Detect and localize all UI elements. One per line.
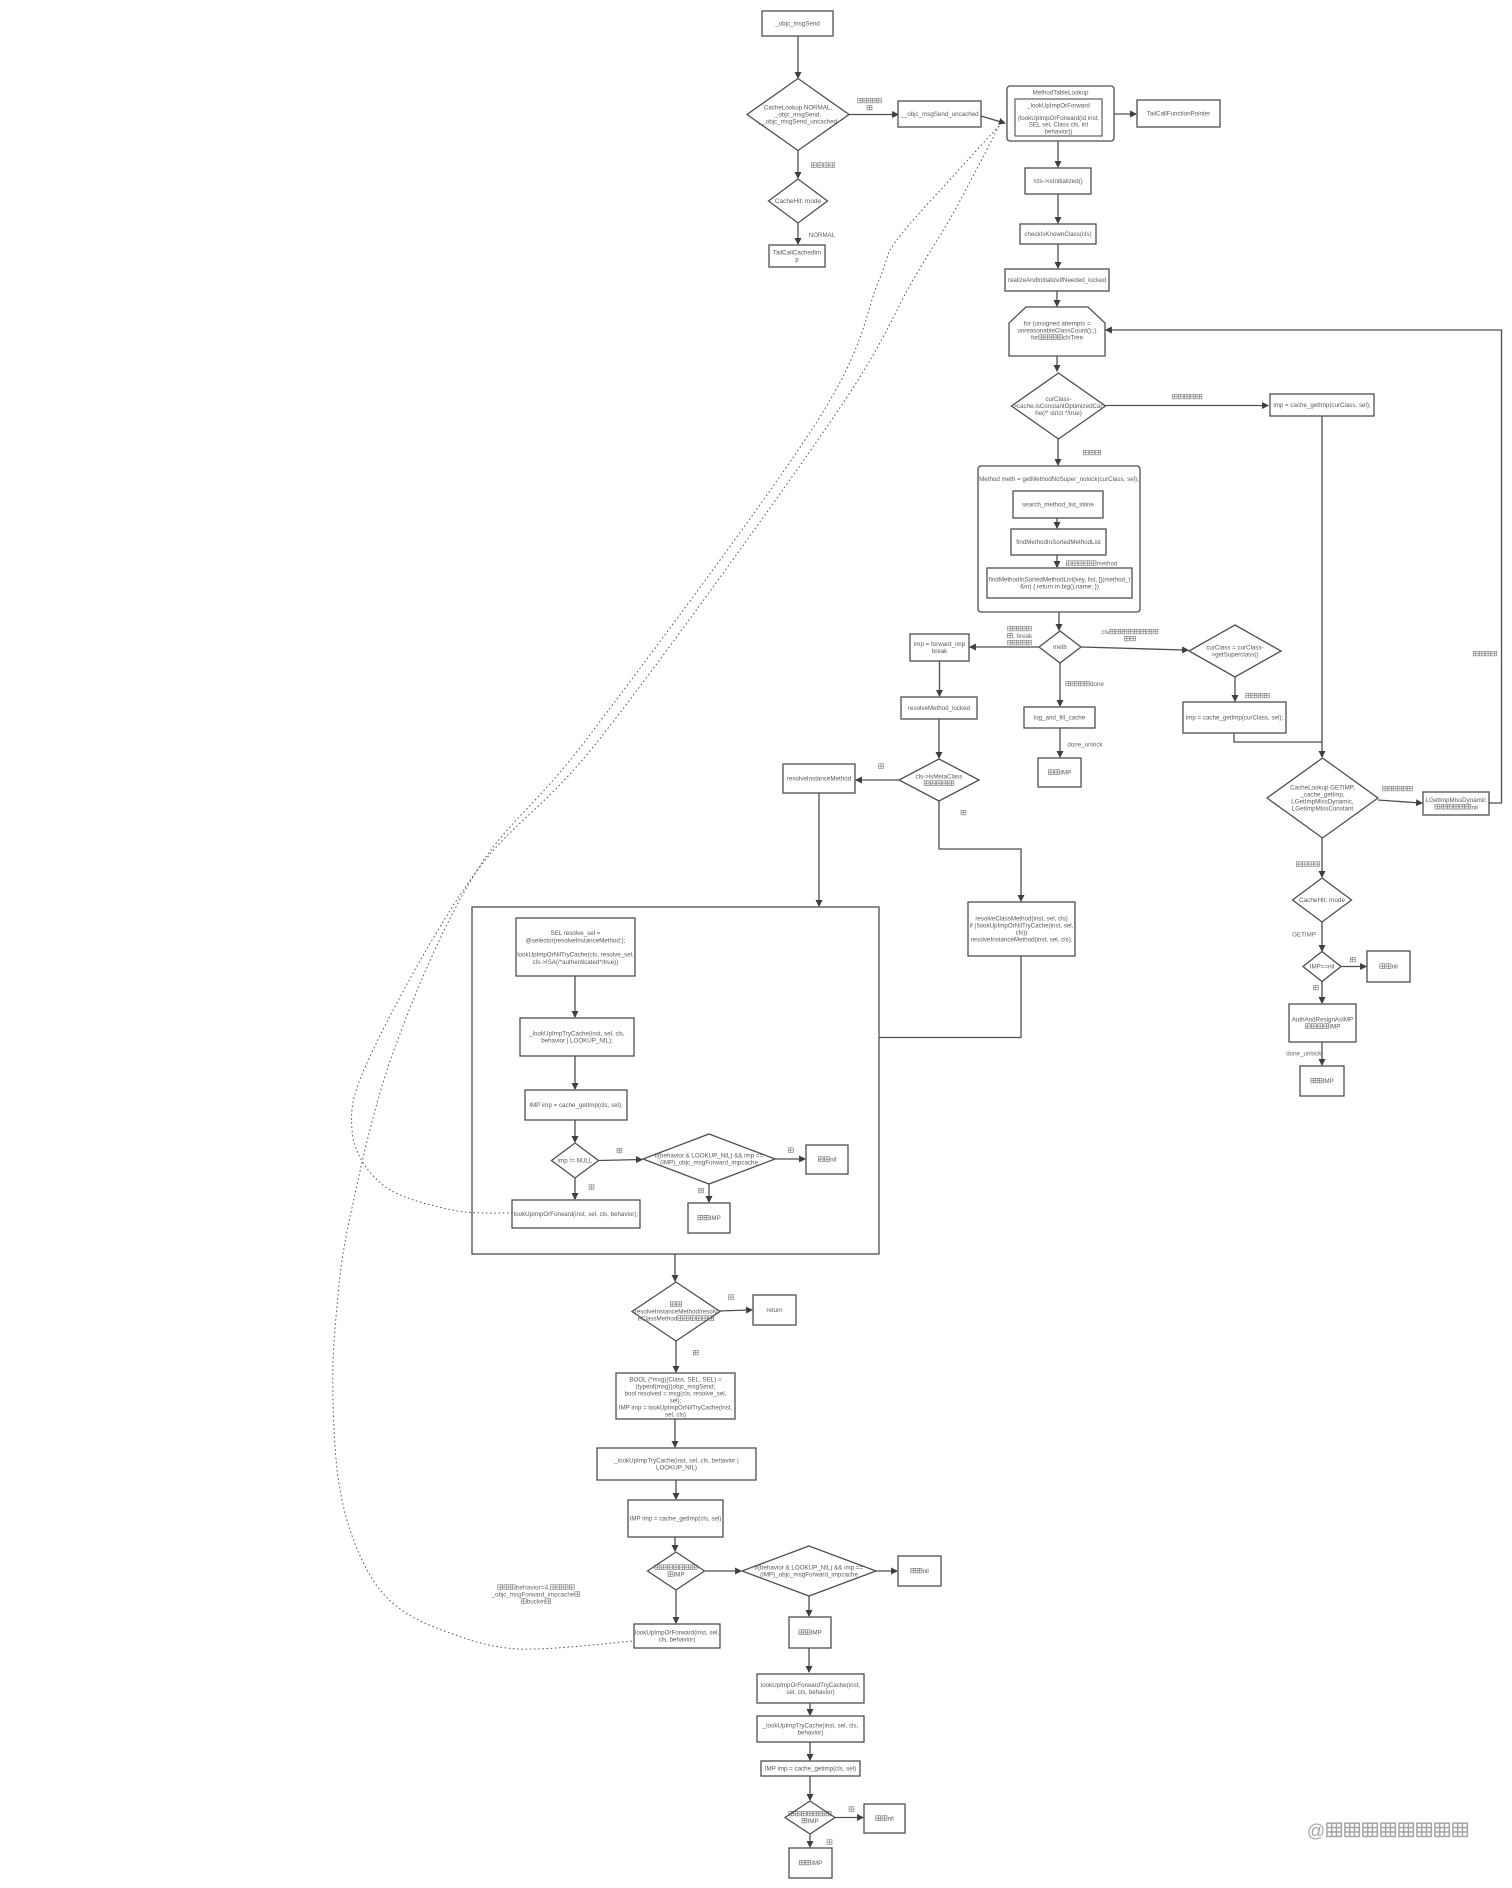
svg-text:&m) { return m.big().name; }): &m) { return m.big().name; })	[1020, 584, 1099, 591]
decision has IMP 1	[648, 1552, 705, 1590]
svg-text:CacheLookup GETIMP,: CacheLookup GETIMP,	[1290, 785, 1355, 792]
wire behavior1 to 返回nil	[775, 1158, 805, 1160]
decision cls->isMetaClass	[899, 759, 979, 801]
svg-text:behavior): behavior)	[798, 1730, 824, 1737]
svg-text:(IMP)_objc_msgForward_impcache: (IMP)_objc_msgForward_impcache	[760, 1572, 858, 1579]
wire IMP==nil down	[1321, 981, 1323, 1003]
label 无缓存	[1083, 450, 1100, 455]
svg-text:NORMAL: NORMAL	[809, 232, 836, 239]
svg-text:Method meth = getMethodNoSuper: Method meth = getMethodNoSuper_nolock(cu…	[979, 476, 1139, 483]
wire isConstantOptimizedCache to cache_getImp	[1106, 405, 1269, 407]
label done_unlock left	[1067, 742, 1103, 749]
svg-text:_objc_msgForward_impcache: _objc_msgForward_impcache	[491, 1592, 575, 1599]
svg-text:search_method_list_inline: search_method_list_inline	[1022, 502, 1094, 509]
svg-text:sel, cls): sel, cls)	[665, 1412, 686, 1419]
svg-text:clsTree: clsTree	[1063, 335, 1084, 342]
svg-text:IMP: IMP	[811, 1630, 822, 1637]
wire cache_getImp to imp!=NULL	[574, 1120, 576, 1142]
svg-text:bool resolved = msg(cls, resol: bool resolved = msg(cls, resolve_sel,	[625, 1391, 727, 1398]
svg-text:TailCallCachedIm: TailCallCachedIm	[773, 250, 821, 257]
svg-text:curClass = curClass-: curClass = curClass-	[1206, 645, 1263, 652]
decision imp != NULL	[552, 1143, 599, 1178]
svg-text:behavior)): behavior))	[1045, 128, 1073, 135]
label 否 imp!=NULL	[589, 1185, 594, 1190]
svg-text:eClassMethod: eClassMethod	[638, 1316, 678, 1323]
svg-text:CacheHit: mode: CacheHit: mode	[1299, 897, 1346, 904]
decision isConstantOptimizedCache	[1012, 373, 1106, 439]
label 否 hasIMP2	[849, 1807, 854, 1812]
svg-text:GETIMP: GETIMP	[1292, 932, 1316, 939]
svg-text:IMP: IMP	[808, 1818, 819, 1825]
box 返回IMP done	[1038, 758, 1081, 787]
label 是 implemented	[693, 1350, 698, 1355]
label 是 isMetaClass	[961, 810, 966, 815]
label Method meth = getMethodNoSuper_nolock	[979, 476, 1139, 483]
box return	[753, 1295, 796, 1325]
box AuthAndResignAsIMP	[1289, 1004, 1356, 1042]
decision curClass = getSuperclass	[1189, 625, 1281, 677]
svg-text:MethodTableLookup: MethodTableLookup	[1033, 90, 1089, 97]
svg-text:cls, behavior): cls, behavior)	[659, 1637, 696, 1644]
box TailCallFunctionPointer	[1137, 100, 1220, 127]
svg-text:nil: nil	[888, 1816, 894, 1823]
svg-text:for (unsigned attempts =: for (unsigned attempts =	[1023, 321, 1090, 328]
svg-text:, break: , break	[1013, 633, 1033, 640]
wire meth to log_and_fill_cache	[1059, 663, 1061, 706]
wire loop back 继续循环	[1106, 330, 1502, 803]
decision IMP==nil	[1303, 952, 1341, 982]
svg-text:log_and_fill_cache: log_and_fill_cache	[1034, 715, 1086, 722]
wire CacheHit to TailCallCachedImp	[797, 223, 799, 244]
svg-text:findMethodInSortedMethodList(k: findMethodInSortedMethodList(key, list, …	[989, 577, 1131, 584]
box resolveClassMethod	[968, 902, 1075, 956]
svg-text:realizeAndInitializeIfNeeded_l: realizeAndInitializeIfNeeded_locked	[1008, 277, 1107, 284]
svg-text:resolveInstanceMethod: resolveInstanceMethod	[787, 776, 852, 783]
wire _objc_msgSend to CacheLookup diamond	[797, 36, 799, 78]
svg-text:imp = cache_getImp(curClass, s: imp = cache_getImp(curClass, sel);	[1273, 402, 1371, 409]
svg-text:lookUpImpOrNilTryCache(cls, re: lookUpImpOrNilTryCache(cls, resolve_sel,	[517, 952, 634, 959]
svg-text:!cls->isInitialized(): !cls->isInitialized()	[1033, 178, 1082, 185]
decision resolve methods implemented	[632, 1282, 720, 1341]
wire search to findMethod	[1056, 518, 1058, 528]
svg-text:behavior=4,: behavior=4,	[516, 1585, 551, 1592]
svg-text:IMP imp = cache_getimp(cls, se: IMP imp = cache_getimp(cls, sel)	[765, 1766, 856, 1773]
label 是 imp!=NULL	[617, 1148, 622, 1153]
svg-text:AuthAndResignAsIMP: AuthAndResignAsIMP	[1292, 1017, 1353, 1024]
wire hasIMP2 to 返回nil	[835, 1817, 863, 1819]
svg-text:return: return	[766, 1307, 783, 1314]
wire resolveInstanceMethod down to container	[818, 793, 820, 906]
svg-text:_objc_msgSend,: _objc_msgSend,	[774, 112, 821, 119]
label 是 hasIMP2	[827, 1840, 832, 1845]
box _lookUpImpTryCache b2	[597, 1448, 756, 1480]
box LGetImpMissDynamic	[1423, 792, 1489, 815]
svg-text:nil: nil	[923, 1568, 929, 1575]
wire cache_getImp b2 down	[674, 1537, 676, 1551]
svg-text:findMethodInSortedMethodList: findMethodInSortedMethodList	[1016, 539, 1101, 546]
svg-text:IMP imp = cache_getImp(cls, se: IMP imp = cache_getImp(cls, sel)	[630, 1516, 722, 1523]
svg-text:SEL resolve_sel =: SEL resolve_sel =	[551, 930, 601, 937]
label 有缓存优化	[1172, 394, 1202, 399]
box resolveMethod_locked	[901, 697, 977, 719]
box for-loop unreasonableClassCount	[1009, 307, 1105, 356]
label BOOL msg text	[619, 1377, 733, 1419]
svg-text:_lookUpImpTryCache(inst, sel,: _lookUpImpTryCache(inst, sel, cls,	[528, 1031, 625, 1038]
svg-text:(IMP)_objc_msgForward_impcache: (IMP)_objc_msgForward_impcache	[660, 1160, 758, 1167]
wire for-loop down	[1056, 356, 1058, 371]
decision behavior LOOKUP_NIL 1	[643, 1134, 775, 1184]
svg-text:nil: nil	[830, 1157, 836, 1164]
svg-text:_lookUpImpOrForward: _lookUpImpOrForward	[1026, 103, 1090, 110]
wire imp!=NULL down	[574, 1178, 576, 1199]
svg-text:imp = forward_imp: imp = forward_imp	[914, 641, 966, 648]
label 命中缓存 GETIMP	[1296, 862, 1320, 867]
decision behavior LOOKUP_NIL 2	[742, 1546, 876, 1596]
wire CacheLookup to __objc_msgSend_uncached	[849, 114, 898, 116]
svg-text:he(/* strict */true): he(/* strict */true)	[1035, 410, 1082, 417]
svg-text:TailCallFunctionPointer: TailCallFunctionPointer	[1147, 111, 1210, 118]
box 返回nil c1	[806, 1145, 848, 1174]
svg-text:checkIsKnownClass(cls): checkIsKnownClass(cls)	[1024, 231, 1091, 238]
label _lookUpImpOrForward text	[1018, 103, 1100, 136]
decision has IMP 2	[785, 1801, 835, 1834]
label 否 IMP==nil	[1313, 985, 1318, 990]
wire resolve_sel down	[574, 976, 576, 1017]
svg-text:cls->isMetaClass: cls->isMetaClass	[915, 774, 962, 781]
label 不存在父类 break 跳出循环	[1008, 626, 1033, 645]
label 否 behavior1	[788, 1148, 793, 1153]
svg-text:LGetImpMissConstant: LGetImpMissConstant	[1292, 806, 1354, 813]
label 否 isMetaClass	[879, 764, 884, 769]
label watermark 稀土掘金	[1307, 1821, 1467, 1841]
svg-text:resolveInstanceMethod/resolv: resolveInstanceMethod/resolv	[635, 1309, 718, 1316]
svg-text:cls: cls	[1101, 629, 1109, 636]
svg-text:CacheLookup NORMAL,: CacheLookup NORMAL,	[764, 105, 832, 112]
wire getSuperclass down	[1234, 677, 1236, 701]
label 存在父类	[1246, 693, 1270, 698]
svg-text:_cache_getImp,: _cache_getImp,	[1299, 792, 1344, 799]
box IMP imp = cache_getImp b2	[628, 1500, 723, 1537]
svg-text:IMP==nil: IMP==nil	[1310, 964, 1334, 971]
svg-text:IMP: IMP	[710, 1215, 721, 1222]
svg-text:bucket: bucket	[527, 1599, 546, 1606]
box lookUpImpOrForwardTryCache	[757, 1674, 864, 1703]
box search_method_list_inline	[1013, 491, 1103, 518]
label 是 behavior1	[699, 1188, 704, 1193]
svg-text:if (!lookUpImpOrNilTryCache(in: if (!lookUpImpOrNilTryCache(inst, sel,	[970, 923, 1074, 930]
svg-text:meth: meth	[1053, 644, 1067, 651]
svg-text:_lookUpImpTryCache(inst, sel,: _lookUpImpTryCache(inst, sel, cls,	[762, 1723, 859, 1730]
wire container to meth diamond	[1058, 612, 1060, 630]
wire cache_getImp mid join	[1234, 733, 1322, 742]
svg-text:if(behavior & LOOKUP_NIL) && i: if(behavior & LOOKUP_NIL) && imp ==	[755, 1565, 864, 1572]
svg-text:_objc_msgSend: _objc_msgSend	[774, 21, 820, 28]
svg-text:@: @	[1307, 1821, 1325, 1841]
wire implemented to return	[720, 1310, 753, 1311]
svg-text:curClass-: curClass-	[1045, 396, 1071, 403]
wire GETIMP to LGetImpMissDynamic	[1378, 800, 1422, 803]
wire isMetaClass to resolveClassMethod	[939, 801, 1021, 901]
wire behavior2 to 返回nil	[876, 1570, 897, 1572]
svg-text:IMP: IMP	[1060, 770, 1071, 777]
svg-text:__objc_msgSend_uncached: __objc_msgSend_uncached	[758, 119, 838, 126]
box log_and_fill_cache	[1024, 707, 1095, 728]
wire isMetaClass to resolveInstanceMethod	[856, 779, 899, 781]
box _lookUpImpTryCache c1	[520, 1018, 634, 1056]
box 返回IMP c1	[688, 1203, 730, 1233]
svg-text:IMP imp = cache_getImp(cls, se: IMP imp = cache_getImp(cls, sel);	[529, 1102, 623, 1109]
wire resolveClassMethod to _lookUpImpTryCache	[635, 956, 1021, 1038]
box resolver container	[472, 907, 879, 1254]
svg-text:IMP: IMP	[1323, 1078, 1334, 1085]
svg-text:resolveMethod_locked: resolveMethod_locked	[908, 705, 971, 712]
box !cls->isInitialized()	[1025, 168, 1091, 194]
svg-text:>cache.isConstantOptimizedCac: >cache.isConstantOptimizedCac	[1013, 403, 1103, 410]
box 返回IMP right	[1300, 1066, 1344, 1096]
wire imp!=NULL to behavior diamond	[599, 1160, 642, 1161]
svg-text:lookUpImpOrForward(inst, sel,: lookUpImpOrForward(inst, sel,	[635, 1630, 719, 1637]
svg-text:lookUpImpOrForwardTryCache(ins: lookUpImpOrForwardTryCache(inst,	[761, 1682, 861, 1689]
svg-text:done_unlock: done_unlock	[1286, 1051, 1322, 1058]
svg-text:@selector(resolveInstanceMetho: @selector(resolveInstanceMethod:);	[526, 938, 626, 945]
box lookUpImpOrForward b2	[634, 1624, 720, 1648]
box TailCallCachedImp	[769, 245, 825, 267]
wire meth to forward_imp	[970, 646, 1039, 648]
box findMethodInSortedMethodList key list	[987, 568, 1132, 598]
svg-text:IMP: IMP	[1329, 1024, 1340, 1031]
wire _lookUpImpTryCache down	[574, 1056, 576, 1089]
label 二分法查找method	[1066, 561, 1118, 568]
box imp = cache_getImp(curClass, sel) mid-right	[1183, 702, 1286, 733]
box 返回IMP b3	[789, 1848, 832, 1878]
svg-text:(typeof(msg))objc_msgSend;: (typeof(msg))objc_msgSend;	[636, 1384, 716, 1391]
wire forward_imp to resolveMethod_locked	[939, 661, 941, 696]
box IMP imp = cache_getImp c1	[525, 1090, 627, 1120]
wire __objc_msgSend_uncached to MethodTableLookup	[981, 116, 1005, 123]
svg-text:break: break	[932, 648, 948, 655]
box resolveInstanceMethod	[783, 764, 855, 793]
label 找到执行done	[1066, 681, 1105, 688]
wire BOOL down	[674, 1419, 676, 1447]
wire IMP==nil to 返回nil	[1341, 966, 1366, 968]
svg-text:method: method	[1097, 561, 1118, 568]
wire cache_getImp down long	[1321, 416, 1323, 757]
wire resolveMethod_locked down	[938, 719, 940, 758]
wire behavior2 to 返回IMP	[808, 1596, 810, 1616]
label SEL resolve_sel text	[517, 930, 634, 966]
decision meth	[1039, 631, 1081, 663]
wire GETIMP to CacheHit2	[1321, 838, 1323, 877]
wire dotted lookUpImpOrForward-b2 to MethodTableLookup	[333, 126, 999, 1649]
decision CacheHit mode 2	[1293, 878, 1352, 922]
wire hasIMP1 to behavior2	[705, 1570, 741, 1572]
svg-text:IMP: IMP	[674, 1572, 685, 1579]
decision CacheHit mode	[769, 179, 828, 223]
svg-text:for: for	[1031, 335, 1038, 342]
svg-text:cls)): cls))	[1016, 930, 1028, 937]
box __objc_msgSend_uncached	[898, 101, 981, 127]
svg-text:imp != NULL: imp != NULL	[558, 1158, 593, 1165]
svg-text:cls->ISA(/*authenticated*/true: cls->ISA(/*authenticated*/true))	[533, 959, 619, 966]
label cache-miss 未命中缓存	[858, 98, 882, 110]
box BOOL msg resolved	[616, 1373, 735, 1419]
wire CacheHit2 down	[1321, 922, 1323, 951]
label 未命中缓存 GETIMP	[1383, 786, 1413, 791]
wire dotted lookUpImpOrForward-c1 to MethodTableLookup	[352, 126, 999, 1213]
wire realize down	[1056, 291, 1058, 306]
label MethodTableLookup title	[1033, 90, 1089, 97]
wire findMethod down	[1056, 555, 1058, 567]
label cls中未找到去父类中查找	[1101, 629, 1158, 641]
box IMP imp = cache_getimp b3	[761, 1761, 860, 1776]
box SEL resolve_sel	[516, 918, 635, 976]
wire implemented down	[675, 1341, 677, 1372]
box lookUpImpOrForward c1	[512, 1200, 640, 1228]
wire MethodTableLookup down	[1057, 141, 1059, 167]
box 返回nil b2	[898, 1556, 941, 1586]
box 返回nil right	[1367, 951, 1410, 982]
wire container2 to resolve-implemented diamond	[674, 1254, 676, 1281]
svg-text:IMP imp = lookUpImpOrNilTryCac: IMP imp = lookUpImpOrNilTryCache(inst,	[619, 1405, 733, 1412]
label 否 implemented	[729, 1295, 734, 1300]
svg-text:CacheHit: mode: CacheHit: mode	[775, 198, 822, 205]
svg-text:p: p	[795, 257, 799, 264]
wire hasIMP1 down	[675, 1590, 677, 1623]
label 此时的behavior=4	[491, 1585, 580, 1606]
label cache-hit 命中缓存	[811, 163, 835, 168]
wire cache_getimp b3 down	[809, 1776, 811, 1800]
svg-text:behavior | LOOKUP_NIL);: behavior | LOOKUP_NIL);	[541, 1038, 613, 1045]
wire log_and_fill_cache to 返回IMP	[1059, 728, 1061, 757]
svg-text:BOOL (*msg)(Class, SEL, SEL) =: BOOL (*msg)(Class, SEL, SEL) =	[629, 1377, 722, 1384]
wire behavior1 to 返回IMP	[708, 1184, 710, 1202]
svg-text:done: done	[1090, 681, 1104, 688]
svg-text:__objc_msgSend_uncached: __objc_msgSend_uncached	[899, 111, 979, 118]
svg-text:>getSuperclass(): >getSuperclass()	[1211, 652, 1258, 659]
box realizeAndInitializeIfNeeded_locked	[1005, 269, 1109, 291]
label done_unlock right	[1286, 1051, 1322, 1058]
svg-text:LOOKUP_NIL): LOOKUP_NIL)	[656, 1465, 697, 1472]
label 是 IMP==nil	[1350, 957, 1355, 962]
svg-text:sel, cls, behavior): sel, cls, behavior)	[786, 1689, 834, 1696]
decision CacheLookup GETIMP	[1267, 758, 1378, 838]
svg-text:LGetImpMissDynamic,: LGetImpMissDynamic,	[1291, 799, 1354, 806]
wire MethodTableLookup to TailCallFunctionPointer	[1114, 113, 1136, 115]
box checkIsKnownClass(cls)	[1020, 224, 1096, 244]
svg-text:done_unlock: done_unlock	[1067, 742, 1103, 749]
box 返回nil b3	[864, 1804, 905, 1833]
box _lookUpImpOrForward inner	[1015, 99, 1102, 136]
box imp = forward_imp break	[910, 634, 969, 661]
box getMethodNoSuper container	[978, 466, 1140, 612]
svg-text:lookUpImpOrForward(inst, sel,: lookUpImpOrForward(inst, sel, cls, behav…	[514, 1211, 639, 1218]
svg-text:nil: nil	[1392, 964, 1398, 971]
svg-text:resolveInstanceMethod(inst, se: resolveInstanceMethod(inst, sel, cls);	[971, 937, 1073, 944]
wire _lookUpImpTryCache b2 down	[675, 1480, 677, 1499]
wire isConstantOptimizedCache down	[1057, 439, 1059, 465]
svg-text:_lookUpImpTryCache(inst, sel,: _lookUpImpTryCache(inst, sel, cls, behav…	[613, 1458, 739, 1465]
svg-text:imp = cache_getImp(curClass, s: imp = cache_getImp(curClass, sel);	[1186, 715, 1284, 722]
label 继续循环	[1473, 651, 1497, 656]
wire meth to getSuperclass	[1081, 647, 1188, 650]
wire hasIMP2 down	[809, 1834, 811, 1847]
decision CacheLookup NORMAL	[747, 79, 849, 151]
wire CacheLookup to CacheHit diamond	[797, 151, 799, 179]
box MethodTableLookup outer	[1007, 86, 1114, 141]
svg-text:IMP: IMP	[811, 1860, 822, 1867]
wire isInitialized down	[1057, 194, 1059, 223]
box findMethodInSortedMethodList	[1011, 529, 1106, 555]
svg-text:resolveClassMethod(inst, sel,: resolveClassMethod(inst, sel, cls)	[975, 916, 1067, 923]
wire AuthAndResignAsIMP to 返回IMP	[1321, 1042, 1323, 1065]
svg-text:if(behavior & LOOKUP_NIL) && i: if(behavior & LOOKUP_NIL) && imp ==	[655, 1153, 764, 1160]
label GETIMP branch	[1292, 932, 1316, 939]
box imp = cache_getImp(curClass, sel) top-right	[1270, 394, 1374, 416]
box 返回IMP b2	[789, 1617, 831, 1648]
svg-text:LGetImpMissDynamic: LGetImpMissDynamic	[1426, 797, 1487, 804]
box _lookUpImpTryCache b3	[757, 1716, 864, 1742]
svg-text:unreasonableClassCount();;): unreasonableClassCount();;)	[1017, 328, 1096, 335]
box _objc_msgSend	[762, 11, 833, 36]
wire checkIsKnownClass down	[1057, 244, 1059, 268]
wire _lookUpImpTryCache b3 down	[809, 1742, 811, 1760]
svg-text:sel);: sel);	[670, 1398, 682, 1405]
wire 返回IMP b2 down	[808, 1648, 810, 1672]
svg-text:nil: nil	[1472, 804, 1478, 811]
wire TryCache down	[809, 1703, 811, 1715]
label NORMAL	[809, 232, 836, 239]
